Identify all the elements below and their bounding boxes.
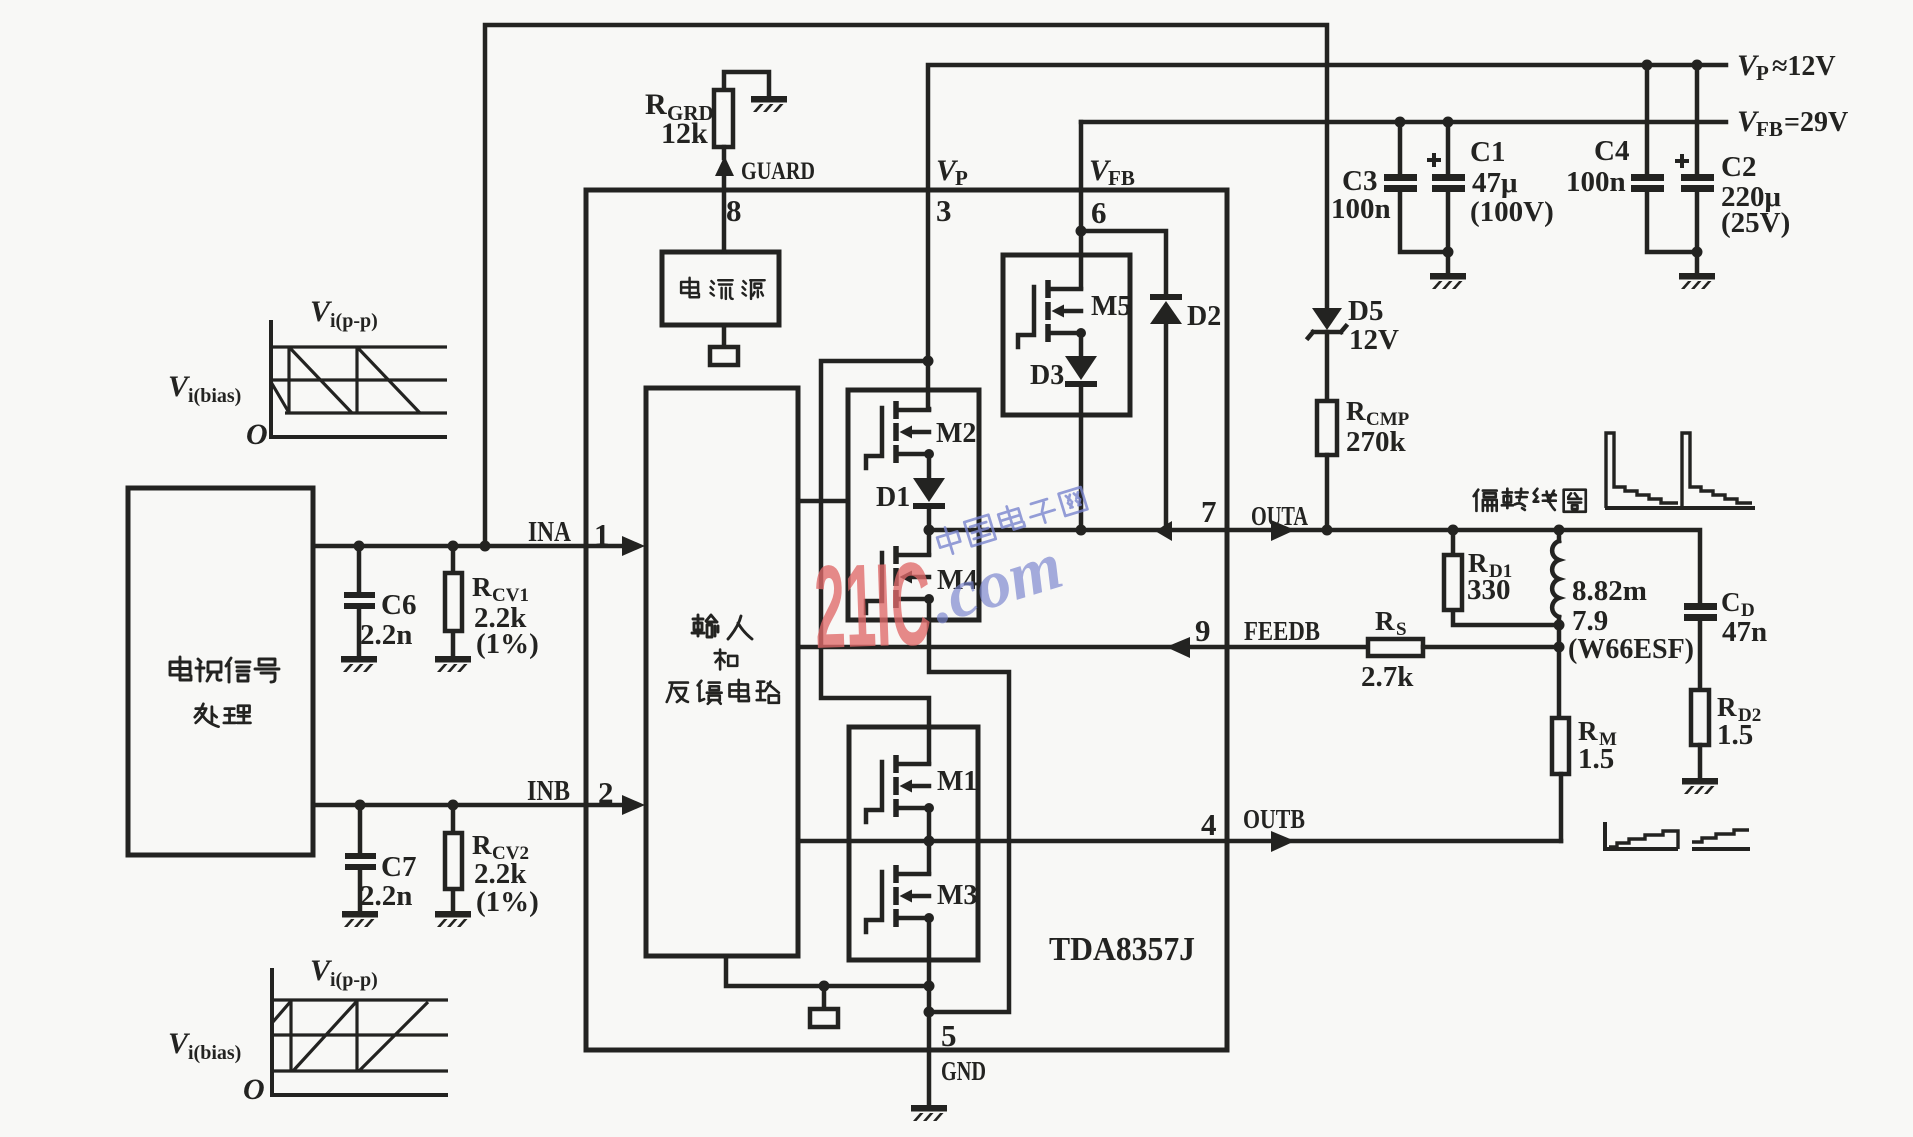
node: junction pin5 net / jog return bbox=[924, 1007, 935, 1018]
svg-text:R: R bbox=[1578, 716, 1598, 746]
svg-text:(25V): (25V) bbox=[1721, 207, 1790, 239]
label pin 7 OUTA bbox=[1201, 494, 1308, 531]
label INA bbox=[528, 517, 572, 548]
svg-text:OUTA: OUTA bbox=[1251, 501, 1308, 531]
waveform graph top-left (INA sawtooth) bbox=[271, 320, 447, 437]
node: junction OUTA/RCMP bbox=[1322, 525, 1333, 536]
capacitor C3 bbox=[1384, 122, 1448, 252]
svg-text:FB: FB bbox=[1756, 117, 1783, 141]
svg-text:C1: C1 bbox=[1470, 136, 1505, 168]
label C2 bbox=[1721, 151, 1790, 239]
wire: M3 source down to pin 5 bbox=[927, 919, 932, 1050]
node: junction pin5 net / bottom line bbox=[924, 981, 935, 992]
label C6 bbox=[360, 589, 416, 651]
label C7 bbox=[360, 851, 416, 912]
svg-text:O: O bbox=[243, 1073, 265, 1106]
label VP rail bbox=[1737, 49, 1836, 85]
label GUARD bbox=[741, 158, 815, 185]
label coil 8.82m 7.9 W66ESF bbox=[1568, 575, 1694, 665]
svg-text:2: 2 bbox=[598, 775, 614, 810]
label M1 bbox=[937, 766, 977, 797]
svg-text:100n: 100n bbox=[1331, 193, 1391, 225]
label RCV1 bbox=[472, 572, 539, 660]
wire: VP feed across to M1 drain bbox=[821, 361, 929, 763]
node: junction coil/RD1 bottom bbox=[1554, 620, 1565, 631]
wire: coil bottom down to RM bbox=[1557, 647, 1562, 718]
svg-text:(1%): (1%) bbox=[476, 886, 539, 918]
label RS bbox=[1361, 606, 1414, 693]
waveform graph bottom-left (INB sawtooth) bbox=[272, 968, 448, 1095]
GUARD arrow on pin 8 bbox=[715, 156, 734, 176]
ground (RD2) bbox=[1682, 778, 1718, 794]
svg-text:5: 5 bbox=[941, 1018, 957, 1053]
node: junction RCV2/INB bbox=[448, 800, 459, 811]
svg-text:12V: 12V bbox=[1349, 324, 1399, 356]
diode D3 bbox=[1065, 334, 1097, 530]
node: junction VFB rail / C3 bbox=[1395, 117, 1406, 128]
label Vi(p-p) top graph bbox=[310, 295, 378, 332]
svg-text:P: P bbox=[955, 166, 968, 190]
substrate stub below current source bbox=[710, 325, 738, 365]
svg-text:47μ: 47μ bbox=[1472, 167, 1518, 199]
svg-text:(W66ESF): (W66ESF) bbox=[1568, 634, 1694, 665]
node: junction OUTA/M2M4 mid bbox=[924, 525, 935, 536]
transistor M5 bbox=[1018, 280, 1086, 347]
svg-text:330: 330 bbox=[1467, 574, 1511, 606]
svg-text:7.9: 7.9 bbox=[1572, 605, 1608, 637]
ground (C2) bbox=[1679, 273, 1715, 289]
wire: branch from pin6 node to D2 bbox=[1081, 231, 1166, 297]
ground (RCV2) bbox=[435, 911, 471, 927]
svg-text:R: R bbox=[1346, 396, 1366, 426]
node: junction RCV1/INA bbox=[448, 541, 459, 552]
resistor RM bbox=[1552, 718, 1569, 841]
block: TV signal processing box bbox=[128, 488, 313, 855]
svg-text:3: 3 bbox=[936, 193, 952, 228]
node: junction OUTA/RD1 bbox=[1448, 525, 1459, 536]
resistor RCV2 bbox=[445, 805, 462, 911]
label M3 bbox=[937, 880, 977, 911]
label INB bbox=[527, 776, 570, 807]
svg-text:1: 1 bbox=[594, 517, 610, 552]
label TDA8357J bbox=[1049, 931, 1195, 968]
svg-text:270k: 270k bbox=[1346, 426, 1407, 458]
diode D1 bbox=[913, 455, 945, 530]
node: junction substrate stub bbox=[819, 981, 830, 992]
block: current source box 电流源 bbox=[662, 252, 779, 325]
wire: M1 source to OUTB node bbox=[927, 809, 932, 841]
label pin 2 bbox=[598, 775, 614, 810]
label M4 bbox=[937, 565, 977, 596]
wire: INA line from TV box to input block bbox=[313, 544, 624, 549]
label D2 bbox=[1187, 301, 1221, 332]
wire: OUTA line pin 7 to deflection yoke bbox=[929, 530, 1700, 603]
label RCV2 bbox=[472, 830, 539, 918]
ground (RCV1) bbox=[435, 656, 471, 672]
label pin 8 bbox=[726, 193, 742, 228]
label O top graph bbox=[246, 418, 268, 451]
wire: VP node to M2 drain bbox=[928, 190, 929, 409]
capacitor C4 bbox=[1631, 65, 1697, 252]
label C1 bbox=[1470, 136, 1554, 228]
svg-text:D5: D5 bbox=[1348, 295, 1383, 327]
resistor RCMP bbox=[1317, 401, 1337, 530]
svg-text:i(bias): i(bias) bbox=[188, 1042, 241, 1064]
label pin 1 bbox=[594, 517, 610, 552]
label VFB pin bbox=[1089, 154, 1135, 190]
svg-text:TDA8357J: TDA8357J bbox=[1049, 931, 1195, 968]
label RCMP bbox=[1346, 396, 1410, 458]
watermark 21IC red bbox=[812, 538, 933, 674]
svg-text:M5: M5 bbox=[1091, 291, 1131, 322]
label D3 bbox=[1030, 360, 1064, 391]
label RD1 330 bbox=[1467, 548, 1512, 606]
svg-text:R: R bbox=[472, 572, 492, 602]
node: junction OUTB/M1M3 mid bbox=[924, 836, 935, 847]
svg-text:8.82m: 8.82m bbox=[1572, 575, 1647, 607]
capacitor C2 electrolytic bbox=[1675, 65, 1714, 273]
svg-text:21IC: 21IC bbox=[812, 538, 933, 674]
svg-text:C2: C2 bbox=[1721, 151, 1756, 183]
wire: OUTA node down to M4 drain bbox=[927, 530, 932, 554]
wire: gate bus tap from input block to M2 box bbox=[798, 499, 848, 504]
svg-text:M2: M2 bbox=[936, 418, 976, 449]
label C3 bbox=[1331, 165, 1391, 225]
wire: M4 source to ground jog around M1/M3 box bbox=[929, 600, 1009, 1012]
label O bottom graph bbox=[243, 1073, 265, 1106]
svg-text:R: R bbox=[472, 830, 492, 860]
svg-text:S: S bbox=[1396, 619, 1407, 640]
resistor RGRD bbox=[714, 72, 769, 158]
node: junction C6/INA bbox=[354, 541, 365, 552]
svg-text:47n: 47n bbox=[1722, 616, 1767, 648]
node: junction OUTA/D3 bbox=[1076, 525, 1087, 536]
label: 输入和反馈电路 bbox=[667, 615, 779, 704]
arrow OUTB direction bbox=[1271, 831, 1295, 852]
capacitor C6 bbox=[344, 546, 375, 656]
svg-text:M1: M1 bbox=[937, 766, 977, 797]
wire: INB line from TV box to input block bbox=[313, 803, 624, 808]
node: junction VFB rail / C1 bbox=[1443, 117, 1454, 128]
svg-text:2.2n: 2.2n bbox=[360, 880, 412, 912]
transistor M1 bbox=[866, 755, 934, 822]
resistor RCV1 bbox=[445, 546, 462, 656]
ground (C6) bbox=[341, 656, 377, 672]
transistor M4 bbox=[866, 546, 934, 613]
block: M2/D1/M4 sub-box bbox=[848, 390, 979, 620]
pin arrow into pin 2 bbox=[622, 795, 645, 815]
svg-text:C: C bbox=[1721, 587, 1741, 617]
capacitor C1 electrolytic bbox=[1427, 122, 1465, 273]
ground (RGRD) bbox=[751, 96, 787, 112]
svg-text:i(p-p): i(p-p) bbox=[330, 969, 378, 991]
inductor deflection coil bbox=[1552, 530, 1559, 647]
svg-text:GUARD: GUARD bbox=[741, 158, 815, 185]
label D1 bbox=[876, 482, 910, 513]
svg-text:D3: D3 bbox=[1030, 360, 1064, 391]
label Vi(bias) top graph bbox=[168, 370, 241, 407]
svg-text:FEEDB: FEEDB bbox=[1244, 616, 1320, 646]
svg-text:2.7k: 2.7k bbox=[1361, 661, 1414, 693]
svg-text:INA: INA bbox=[528, 517, 572, 548]
label RM 1.5 bbox=[1578, 716, 1617, 775]
label C4 bbox=[1566, 135, 1629, 198]
svg-text:1.5: 1.5 bbox=[1578, 743, 1614, 775]
node: junction VP rail / C2 bbox=[1692, 60, 1703, 71]
node: junction C3/C1 bottoms bbox=[1443, 247, 1454, 258]
node: junction C4/C2 bottoms bbox=[1692, 247, 1703, 258]
wire: top loop from INA up and across to D5 bbox=[485, 25, 1327, 546]
substrate stub at bottom bbox=[810, 986, 838, 1027]
arrow OUTA direction bbox=[1271, 520, 1295, 541]
node: junction VP feed bbox=[923, 356, 934, 367]
capacitor C7 bbox=[345, 805, 376, 911]
pin arrow into pin 1 bbox=[622, 536, 645, 556]
transistor M3 bbox=[866, 865, 934, 932]
wire: VP riser pin3 and +12V rail bbox=[928, 65, 1726, 190]
waveform OUTA flyback pulses bbox=[1605, 433, 1755, 508]
svg-text:≈12V: ≈12V bbox=[1772, 51, 1836, 82]
node: junction coil/RS bbox=[1554, 642, 1565, 653]
wire: OUTB node to M3 drain bbox=[927, 841, 932, 873]
svg-text:C6: C6 bbox=[381, 589, 416, 621]
svg-text:6: 6 bbox=[1091, 195, 1107, 230]
svg-text:R: R bbox=[1717, 692, 1737, 722]
transistor M2 bbox=[866, 401, 934, 468]
block: M1/M3 sub-box bbox=[849, 727, 978, 960]
node: junction top-loop/INA bbox=[480, 541, 491, 552]
node: junction pin6 branch bbox=[1076, 226, 1087, 237]
label D5 12V bbox=[1348, 295, 1399, 356]
svg-text:INB: INB bbox=[527, 776, 570, 807]
label RD2 1.5 bbox=[1717, 692, 1761, 751]
label pin 5 GND bbox=[941, 1018, 986, 1086]
label VFB rail bbox=[1737, 105, 1848, 141]
svg-text:12k: 12k bbox=[661, 117, 708, 150]
label pin 4 OUTB bbox=[1201, 804, 1305, 842]
label pin 6 bbox=[1091, 195, 1107, 230]
svg-text:M3: M3 bbox=[937, 880, 977, 911]
node: junction VP rail / C4 bbox=[1642, 60, 1653, 71]
label Vi(bias) bottom graph bbox=[168, 1027, 241, 1064]
svg-text:O: O bbox=[246, 418, 268, 451]
svg-text:GND: GND bbox=[941, 1056, 986, 1086]
ground (C1) bbox=[1430, 273, 1466, 289]
svg-text:1.5: 1.5 bbox=[1717, 719, 1753, 751]
node: junction C7/INB bbox=[355, 800, 366, 811]
arrow FEEDB into pin 9 bbox=[1166, 637, 1190, 658]
node: junction OUTA/coil bbox=[1554, 525, 1565, 536]
label M2 bbox=[936, 418, 976, 449]
resistor RD1 bbox=[1444, 530, 1559, 625]
zener diode D5 bbox=[1308, 308, 1346, 401]
label VP pin bbox=[936, 154, 968, 190]
label CD 47n bbox=[1721, 587, 1767, 648]
svg-text:=29V: =29V bbox=[1784, 107, 1848, 138]
watermark 中国电子网 blue bbox=[935, 487, 1087, 557]
svg-text:i(p-p): i(p-p) bbox=[330, 310, 378, 332]
block: M5/D3 sub-box bbox=[1003, 255, 1130, 415]
svg-text:(100V): (100V) bbox=[1470, 196, 1554, 228]
svg-text:(1%): (1%) bbox=[476, 628, 539, 660]
ground (C7) bbox=[342, 911, 378, 927]
wire: input block bottom to pin 5 net bbox=[726, 956, 929, 986]
svg-text:100n: 100n bbox=[1566, 166, 1626, 198]
label pin 9 FEEDB bbox=[1195, 613, 1320, 648]
svg-text:P: P bbox=[1756, 61, 1769, 85]
capacitor CD bbox=[1684, 603, 1717, 690]
wire: pin6 vertical into IC down to M5 drain bbox=[1079, 122, 1084, 288]
ground (GND pin5) bbox=[911, 1105, 947, 1121]
svg-text:OUTB: OUTB bbox=[1243, 804, 1305, 834]
svg-text:R: R bbox=[1375, 606, 1395, 636]
resistor RD2 bbox=[1691, 690, 1709, 778]
svg-text:2.2n: 2.2n bbox=[360, 619, 412, 651]
svg-text:D2: D2 bbox=[1187, 301, 1221, 332]
label RGRD bbox=[645, 88, 714, 150]
wire: pin 8 into current source bbox=[722, 176, 727, 252]
svg-text:C7: C7 bbox=[381, 851, 416, 883]
node: junction OUTA/D2 with arrow mark bbox=[1155, 521, 1172, 541]
svg-text:FB: FB bbox=[1108, 166, 1135, 190]
label Vi(p-p) bottom graph bbox=[310, 954, 378, 991]
wire: VFB riser pin6 and 29V rail bbox=[1081, 120, 1726, 125]
svg-text:4: 4 bbox=[1201, 807, 1217, 842]
wire: FEEDB line pin 9 bbox=[798, 645, 1368, 650]
svg-text:7: 7 bbox=[1201, 494, 1217, 529]
svg-text:8: 8 bbox=[726, 193, 742, 228]
label: TV box text 电视信号处理 bbox=[170, 657, 279, 727]
svg-text:9: 9 bbox=[1195, 613, 1211, 648]
watermark .com blue script bbox=[920, 526, 1070, 638]
svg-text:D1: D1 bbox=[876, 482, 910, 513]
diode D2 bbox=[1150, 294, 1182, 530]
label: 电流源 bbox=[681, 278, 765, 299]
block: input & feedback circuit box bbox=[646, 388, 798, 956]
waveform OUTB ramp steps bbox=[1605, 822, 1750, 849]
wire: pin 5 to ground bbox=[927, 1050, 932, 1105]
label M5 bbox=[1091, 291, 1131, 322]
label pin 3 bbox=[936, 193, 952, 228]
svg-text:C4: C4 bbox=[1594, 135, 1629, 167]
IC TDA8357J outline bbox=[586, 190, 1227, 1050]
wire: OUTB line pin 4 bbox=[798, 839, 1561, 844]
label 偏转线圈 bbox=[1474, 489, 1586, 512]
resistor RS bbox=[1368, 639, 1559, 656]
svg-text:i(bias): i(bias) bbox=[188, 385, 241, 407]
